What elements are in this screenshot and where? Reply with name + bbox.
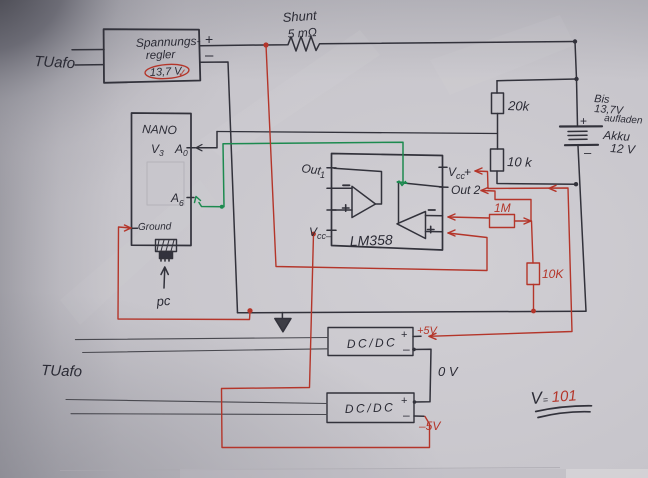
svg-text:10 k: 10 k [507, 154, 534, 170]
svg-text:DC/DC: DC/DC [345, 400, 396, 416]
svg-text:5 mΩ: 5 mΩ [287, 25, 317, 41]
svg-text:1M: 1M [494, 201, 511, 215]
svg-text:+: + [401, 329, 407, 341]
svg-text:–: – [403, 408, 410, 422]
svg-text:–5V: –5V [418, 419, 441, 433]
svg-text:3: 3 [159, 148, 164, 158]
svg-text:Ground: Ground [138, 221, 172, 233]
svg-text:+5V: +5V [417, 325, 439, 337]
svg-text:0: 0 [183, 148, 188, 158]
svg-text:20k: 20k [507, 98, 531, 114]
svg-text:+: + [401, 395, 407, 407]
svg-text:Spannungs-: Spannungs- [136, 34, 201, 50]
svg-text:regler: regler [146, 49, 177, 62]
svg-text:TUafo: TUafo [41, 362, 82, 380]
svg-text:–: – [403, 342, 410, 356]
svg-text:=: = [542, 395, 548, 405]
svg-text:A: A [170, 191, 179, 205]
svg-text:–: – [205, 47, 214, 64]
svg-text:0 V: 0 V [438, 364, 459, 379]
svg-text:12 V: 12 V [610, 141, 637, 157]
svg-text:A: A [174, 142, 183, 156]
svg-text:TUafo: TUafo [34, 53, 76, 72]
svg-text:–: – [584, 145, 592, 160]
svg-text:pc: pc [155, 293, 171, 309]
svg-text:+: + [464, 165, 471, 179]
svg-text:+: + [205, 31, 213, 47]
svg-text:LM358: LM358 [350, 232, 394, 249]
svg-text:cc–: cc– [317, 231, 332, 241]
svg-text:Shunt: Shunt [282, 8, 318, 25]
svg-text:6: 6 [179, 198, 184, 208]
svg-text:DC/DC: DC/DC [347, 335, 398, 351]
svg-text:Out 2: Out 2 [451, 183, 481, 197]
svg-text:101: 101 [551, 387, 577, 406]
svg-text:NANO: NANO [142, 122, 177, 137]
svg-text:1: 1 [320, 170, 325, 180]
svg-text:+: + [580, 114, 587, 128]
svg-text:10K: 10K [542, 267, 564, 281]
